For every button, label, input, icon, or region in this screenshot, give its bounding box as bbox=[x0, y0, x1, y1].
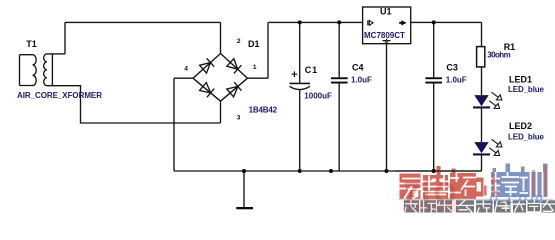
svg-text:C1: C1 bbox=[305, 65, 318, 75]
watermark pale 710 overlay bbox=[405, 184, 454, 203]
ground GND bar bbox=[236, 207, 253, 209]
diode D1c bottom-left bbox=[200, 83, 215, 98]
wire top rail left segment bbox=[65, 21, 221, 23]
capacitor C4 plate bottom bbox=[331, 82, 348, 84]
wire U1 output rail bbox=[411, 21, 482, 23]
wire pin4 down to ground rail bbox=[173, 78, 175, 171]
svg-text:1: 1 bbox=[253, 64, 257, 71]
LED2 arrow b bbox=[489, 148, 499, 156]
junction dot bottom rail C1 bbox=[298, 169, 302, 173]
junction dot bottom rail C3 overlay bbox=[432, 169, 436, 173]
bridge rectifier D1 diamond bbox=[193, 54, 248, 102]
watermark red overlay on blue chars bbox=[491, 165, 546, 196]
capacitor C3 plate top bbox=[425, 77, 442, 79]
wire secondary bottom jog bbox=[52, 86, 220, 123]
LED1 triangle bbox=[474, 95, 488, 106]
capacitor C3 wire top bbox=[433, 22, 435, 77]
watermark gray slogan row bbox=[404, 200, 555, 212]
capacitor C1 top plate bbox=[290, 82, 311, 84]
watermark group bbox=[398, 164, 555, 213]
capacitor C3 wire bottom bbox=[433, 84, 435, 172]
capacitor C4 wire top bbox=[338, 22, 340, 77]
LED2 arrow a bbox=[492, 139, 502, 147]
junction dot bottom rail C3 bbox=[432, 169, 436, 173]
svg-text:2: 2 bbox=[237, 38, 241, 45]
wire pin1 riser bbox=[267, 22, 269, 78]
watermark red char yi bbox=[400, 174, 421, 200]
watermark blue char xun bbox=[520, 164, 548, 198]
svg-text:4: 4 bbox=[184, 66, 188, 73]
junction dot top rail C3 bbox=[432, 20, 436, 24]
junction dot top rail C4 bbox=[337, 20, 341, 24]
wire top rail to U1 input bbox=[268, 21, 363, 23]
wire bridge bottom riser bbox=[220, 101, 222, 123]
watermark red tick before pei bbox=[484, 186, 487, 196]
U1 ground pin mark bbox=[383, 39, 391, 42]
U1 input arrow head hollow bbox=[369, 20, 373, 25]
svg-text:LED_blue: LED_blue bbox=[508, 85, 545, 94]
svg-text:1.0uF: 1.0uF bbox=[446, 75, 467, 84]
capacitor C1 curved plate bbox=[290, 86, 311, 89]
diode D1b top-right bbox=[227, 59, 242, 74]
LED2 triangle bbox=[474, 142, 488, 153]
svg-text:AIR_CORE_XFORMER: AIR_CORE_XFORMER bbox=[17, 91, 102, 100]
LED1 cathode bar bbox=[473, 106, 490, 108]
svg-text:C3: C3 bbox=[446, 62, 458, 72]
transformer T1 secondary winding bbox=[44, 54, 53, 86]
capacitor C3 plate bottom bbox=[425, 82, 442, 84]
svg-text:1.0uF: 1.0uF bbox=[351, 75, 372, 84]
wire R1 riser bbox=[481, 22, 483, 46]
wire bottom rail bbox=[174, 170, 482, 172]
svg-text:T1: T1 bbox=[26, 39, 37, 49]
wire bridge pin1 to right bbox=[248, 77, 269, 79]
wire bridge pin4 to left bbox=[174, 77, 193, 79]
wire riser to top rail bbox=[64, 22, 66, 54]
svg-text:C4: C4 bbox=[352, 62, 364, 72]
svg-text:30ohm: 30ohm bbox=[487, 51, 511, 60]
capacitor C4 plate top bbox=[331, 77, 348, 79]
watermark blue char pei bbox=[491, 164, 520, 198]
watermark white carve lines right chars bbox=[491, 172, 543, 197]
C1 plus sign bbox=[292, 71, 298, 77]
watermark pink tint over left slogan bbox=[403, 200, 460, 213]
U1 output arrow filled bbox=[401, 20, 406, 25]
U1 ground wire bbox=[386, 44, 388, 171]
capacitor C1 wire top bbox=[299, 22, 301, 82]
U1 output arrow stem bbox=[399, 22, 402, 24]
svg-text:3: 3 bbox=[237, 114, 241, 121]
watermark light underline bbox=[398, 199, 553, 200]
wire bridge top riser bbox=[220, 22, 222, 53]
diode D1a top-left bbox=[200, 58, 215, 73]
capacitor C4 wire bottom bbox=[338, 84, 340, 172]
wire R1 to LED1 bbox=[481, 67, 483, 95]
junction dot bottom rail ground bbox=[242, 169, 246, 173]
svg-text:D1: D1 bbox=[248, 39, 260, 49]
watermark white carve lines left chars bbox=[399, 173, 482, 199]
wire bottom rail overlay right bbox=[395, 170, 482, 172]
svg-text:1000uF: 1000uF bbox=[304, 91, 332, 100]
LED2 cathode bar bbox=[473, 153, 490, 155]
svg-text:1B4B42: 1B4B42 bbox=[249, 105, 278, 114]
wire secondary top to riser bbox=[52, 53, 65, 55]
LED1 arrow b bbox=[489, 101, 499, 109]
svg-text:MC7809CT: MC7809CT bbox=[364, 31, 405, 40]
ground GND stem bbox=[243, 171, 245, 207]
svg-text:LED_blue: LED_blue bbox=[508, 133, 545, 142]
wire LED2 to bottom rail bbox=[481, 155, 483, 171]
regulator U1 box bbox=[363, 7, 411, 44]
watermark red char di bbox=[423, 166, 448, 199]
junction dot bottom rail stray bbox=[329, 169, 333, 173]
junction dot top rail C1 bbox=[298, 20, 302, 24]
LED1 arrow a bbox=[492, 92, 502, 100]
watermark red char tuo bbox=[450, 169, 484, 200]
svg-text:o.com: o.com bbox=[489, 190, 546, 207]
junction dot bottom rail U1 gnd bbox=[385, 169, 389, 173]
diode D1d bottom-right bbox=[227, 82, 242, 97]
svg-text:LED2: LED2 bbox=[509, 121, 532, 131]
transformer T1 primary winding bbox=[20, 55, 37, 86]
resistor R1 body bbox=[477, 47, 485, 67]
svg-text:U1: U1 bbox=[380, 7, 392, 17]
wire LED1 to LED2 bbox=[481, 108, 483, 142]
capacitor C1 wire bottom bbox=[299, 90, 301, 171]
U1 input arrow bar bbox=[367, 20, 369, 25]
svg-text:LED1: LED1 bbox=[509, 75, 532, 85]
